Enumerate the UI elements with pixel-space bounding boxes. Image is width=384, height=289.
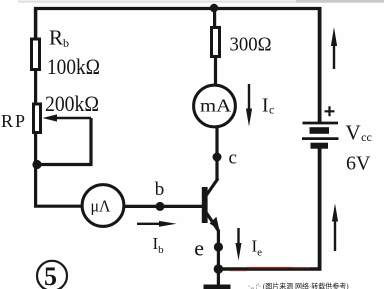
wire wiper feedback horizontal — [36, 163, 93, 166]
wire collector vertical — [215, 128, 218, 180]
wiper arrow of RP — [52, 117, 91, 120]
current arrow Ic — [248, 84, 250, 112]
battery Vcc plate 1 long — [303, 122, 339, 125]
wire wiper feedback vertical — [89, 118, 92, 165]
red watermark remnant on rail — [247, 267, 292, 269]
svg-text:c: c — [229, 148, 237, 169]
svg-text:6V: 6V — [346, 153, 371, 175]
wire Rb to RP — [34, 69, 37, 104]
wire top junction to 300 ohm resistor — [213, 7, 216, 27]
potentiometer RP — [34, 104, 41, 133]
wire bottom rail — [218, 267, 321, 270]
svg-text:μΛ: μΛ — [91, 197, 112, 216]
top edge scan artifact streak — [18, 1, 384, 3]
emitter arrowhead — [210, 217, 220, 230]
wire right vertical battery bottom — [318, 149, 322, 271]
battery plate 3 long — [302, 137, 339, 140]
svg-text:100kΩ: 100kΩ — [47, 54, 100, 79]
microammeter uA — [82, 185, 124, 227]
wire RP down to ammeter row — [34, 132, 37, 206]
current arrow Ie — [237, 228, 239, 247]
svg-text:e: e — [194, 236, 204, 261]
current direction arrow top right — [333, 44, 335, 69]
milliammeter mA — [194, 85, 236, 127]
wire to microammeter — [34, 205, 82, 208]
svg-text:mA: mA — [200, 96, 231, 116]
svg-text:200kΩ: 200kΩ — [45, 91, 99, 116]
node c — [213, 153, 222, 162]
svg-text:5: 5 — [44, 262, 57, 289]
svg-text:300Ω: 300Ω — [230, 34, 272, 56]
battery plate 2 short thick — [310, 127, 330, 134]
wire top rail — [34, 7, 321, 10]
junction dot e to rail — [214, 264, 224, 274]
wire left vertical to Rb — [34, 7, 38, 38]
transistor collector lead — [207, 179, 219, 196]
wire emitter vertical to ground rail — [217, 230, 220, 285]
svg-text:b: b — [155, 179, 165, 200]
battery plus sign — [325, 106, 335, 116]
transistor Q base bar — [202, 187, 208, 223]
node e — [214, 242, 223, 251]
current direction arrow bottom right — [334, 219, 336, 251]
junction dot below RP — [32, 160, 41, 169]
current arrow Ib — [137, 223, 162, 225]
resistor Rb — [32, 39, 40, 70]
wire uA to base — [124, 205, 202, 208]
transistor emitter lead — [207, 213, 220, 232]
node b — [156, 202, 165, 211]
ground symbol — [204, 285, 231, 289]
junction dot top — [210, 4, 218, 12]
resistor 300 ohm — [212, 28, 220, 57]
svg-text:RP: RP — [1, 111, 27, 131]
battery plate 4 short thick — [311, 143, 329, 149]
wire 300 ohm to mA meter — [214, 56, 217, 85]
svg-text:·., :'· (图片来源 网络·转载供参考): ·., :'· (图片来源 网络·转载供参考) — [248, 282, 349, 289]
figure number circled 5 — [37, 261, 67, 289]
wire right vertical battery top — [318, 7, 322, 122]
